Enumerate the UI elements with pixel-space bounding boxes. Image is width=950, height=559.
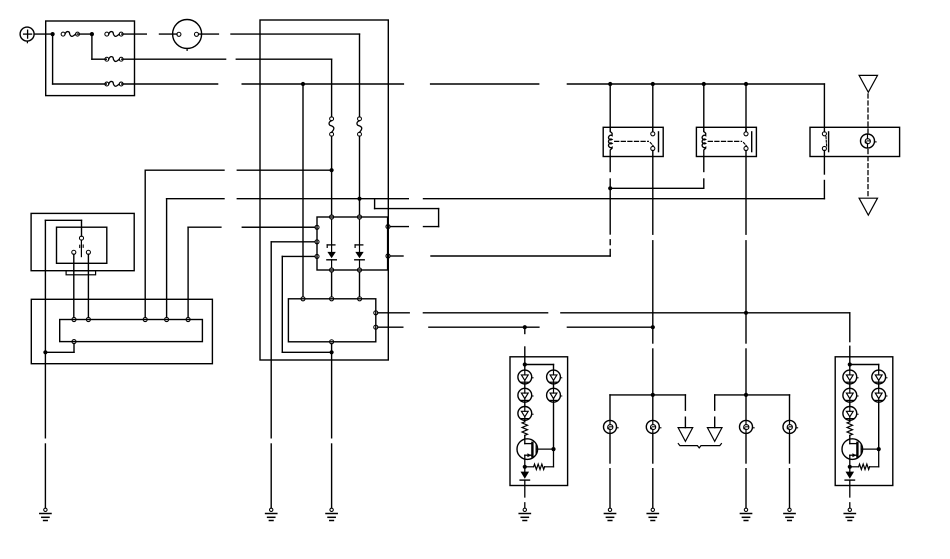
wire bbox=[78, 33, 92, 35]
pin e bbox=[186, 317, 190, 321]
pin 2 bbox=[330, 297, 334, 301]
wire bbox=[849, 384, 851, 388]
wire bbox=[359, 199, 361, 215]
ground G8 bbox=[523, 508, 526, 511]
node bus junction to combination module bbox=[301, 82, 305, 86]
bus bar (inner) bbox=[60, 320, 203, 342]
wire bbox=[331, 170, 333, 215]
switch right contact bbox=[86, 250, 90, 254]
wire diode pack pin4 to ground leg bbox=[271, 241, 315, 243]
switch lever bbox=[80, 240, 82, 257]
wire relay coils common bbox=[609, 157, 611, 172]
wire relay R2 contact to lamps bbox=[745, 157, 747, 235]
LED D3 bbox=[518, 407, 532, 421]
wire to ground bbox=[849, 480, 851, 497]
wire module internal supply bbox=[849, 357, 851, 370]
pin 6 bbox=[330, 340, 334, 344]
wire switch common to ground net bbox=[81, 220, 83, 236]
fuse box (under-hood fuse/relay box) bbox=[46, 21, 135, 96]
wire relay R1 contact to lamps bbox=[652, 157, 654, 235]
ground G2 bbox=[270, 508, 273, 511]
pin 3 bbox=[315, 225, 319, 229]
node accessory net junction bbox=[330, 168, 334, 172]
pin 6 bbox=[386, 225, 390, 229]
ground G3 bbox=[330, 508, 333, 511]
node gate junction bbox=[877, 447, 881, 451]
LED taillight module left bbox=[510, 357, 568, 486]
dashed link lower bbox=[867, 150, 869, 197]
LED D2 bbox=[518, 388, 532, 402]
turn signal lamp L2 bbox=[646, 420, 659, 433]
column connector block (outer) bbox=[31, 299, 212, 363]
LED D3 bbox=[843, 407, 857, 421]
switch common terminal bbox=[79, 236, 83, 240]
wire gate bbox=[861, 448, 879, 450]
node coil common junction bbox=[608, 186, 612, 190]
wire junction A down to fuse F4 bbox=[52, 34, 54, 84]
gauge control module U1 (outline) bbox=[260, 20, 388, 360]
wire bus drop to connector pin bbox=[302, 84, 304, 297]
wire switch left contact down bbox=[73, 254, 75, 317]
wire right turn output bbox=[378, 312, 409, 314]
ground G5 bbox=[651, 508, 654, 511]
node left turn junction bbox=[651, 325, 655, 329]
wire ignition line to switch pod bbox=[167, 198, 224, 200]
turn signal switch (inner) bbox=[57, 227, 107, 263]
fuse F3 bbox=[105, 57, 109, 61]
wire connector ground leg bbox=[331, 344, 333, 438]
LED D2 bbox=[843, 388, 857, 402]
wire illumination to diode pack bbox=[242, 226, 315, 228]
node module supply junction bbox=[523, 362, 527, 366]
pin 1 bbox=[301, 297, 305, 301]
LED D5 bbox=[547, 388, 561, 402]
ignition switch bbox=[173, 20, 202, 49]
node left module junction bbox=[523, 325, 527, 329]
wire diode outputs to connector bbox=[331, 272, 333, 297]
wire bus bar to ground bbox=[73, 344, 75, 353]
wire jog net (pin6 bridge) bbox=[390, 226, 408, 228]
wire accessory feed drop bbox=[331, 59, 333, 117]
wire left turn lamp manifold bbox=[610, 394, 685, 396]
resistor series bbox=[524, 420, 526, 422]
transistor Q1 (MOSFET) bbox=[842, 439, 863, 460]
transistor Q1 (MOSFET) bbox=[517, 439, 538, 460]
R3 contact bbox=[822, 132, 826, 136]
node ground junction bbox=[43, 350, 47, 354]
wire bbox=[359, 136, 361, 199]
wire relay R1 feeds bbox=[609, 84, 611, 132]
switch left contact bbox=[72, 250, 76, 254]
diode reverse protection bbox=[849, 467, 851, 472]
turn signal switch assembly (outer) bbox=[31, 213, 134, 270]
node left manifold junction bbox=[651, 393, 655, 397]
pin 4 bbox=[374, 311, 378, 315]
wire to ground bbox=[524, 480, 526, 497]
wire to trailer connector left bbox=[684, 395, 686, 410]
node source junction bbox=[848, 465, 852, 469]
node fuse feed junction B bbox=[90, 32, 94, 36]
hazard warning unit R3 bbox=[810, 127, 900, 156]
wire diode pack pin5 to ground net bbox=[282, 255, 315, 257]
wire bbox=[331, 136, 333, 170]
node bus junction relay 2 coil bbox=[702, 82, 706, 86]
diode reverse protection bbox=[524, 467, 526, 472]
ground G4 bbox=[608, 508, 611, 511]
pin a bbox=[72, 317, 76, 321]
pin f bbox=[72, 340, 76, 344]
LED D1 bbox=[843, 370, 857, 384]
pin d bbox=[165, 317, 169, 321]
pin 7 bbox=[386, 254, 390, 258]
node gate junction bbox=[551, 447, 555, 451]
node ground net junction bbox=[330, 350, 334, 354]
wire fuse F2 to ignition switch bbox=[122, 33, 147, 35]
connector arrow trailer right bbox=[707, 428, 722, 442]
relay R2 (right turn flasher) bbox=[696, 127, 756, 156]
fuse F2 bbox=[105, 32, 109, 36]
pin 3 bbox=[358, 297, 362, 301]
node source junction bbox=[523, 465, 527, 469]
turn signal lamp L1 bbox=[604, 420, 617, 433]
wire ignition switch output bbox=[199, 33, 219, 35]
pin 5 bbox=[315, 254, 319, 258]
node fuse feed junction A bbox=[51, 32, 55, 36]
ground G7 bbox=[788, 508, 791, 511]
diode pack (turn signal indicator diodes) bbox=[317, 217, 388, 270]
wire LED column to gate node bbox=[878, 402, 880, 449]
wire bbox=[524, 384, 526, 388]
node ignition net junction bbox=[357, 197, 361, 201]
wire left module drop bbox=[524, 327, 526, 333]
connector bar bbox=[66, 271, 96, 275]
diode D1 bbox=[331, 219, 333, 244]
wire switch right contact down bbox=[87, 254, 89, 317]
pin 2 bbox=[357, 215, 361, 219]
LED D4 bbox=[547, 370, 561, 384]
pin c bbox=[143, 317, 147, 321]
fuse F1 bbox=[61, 32, 65, 36]
fuse F5 (internal) bbox=[358, 117, 362, 121]
wire module internal supply bbox=[524, 357, 526, 370]
wire battery to fuse box bbox=[34, 33, 53, 35]
node bus junction relay 1 coil bbox=[608, 82, 612, 86]
LED D4 bbox=[872, 370, 886, 384]
resistor gate-source bbox=[878, 449, 880, 467]
brace trailer connector group bbox=[678, 444, 721, 448]
turn signal lamp L3 bbox=[740, 420, 753, 433]
wire LED column to gate node bbox=[553, 402, 555, 449]
fuse F6 (internal) bbox=[330, 117, 334, 121]
pin b bbox=[86, 317, 90, 321]
pin 4 bbox=[315, 240, 319, 244]
connector arrow up bbox=[859, 75, 877, 92]
wire fuse F3 output bbox=[122, 58, 226, 60]
pin 9 bbox=[357, 268, 361, 272]
relay R1 (left turn flasher) bbox=[603, 127, 663, 156]
resistor gate-source bbox=[553, 449, 555, 467]
wire right turn lamp manifold bbox=[715, 394, 790, 396]
turn signal lamp L4 bbox=[783, 420, 796, 433]
node right manifold junction bbox=[744, 393, 748, 397]
wire bbox=[849, 402, 851, 406]
LED D5 bbox=[872, 388, 886, 402]
wire R3 contact output bbox=[823, 151, 825, 157]
wire main battery bus bbox=[122, 83, 218, 85]
node right turn junction bbox=[744, 311, 748, 315]
wire left turn output bbox=[378, 326, 403, 328]
node bus junction relay 2 contact bbox=[744, 82, 748, 86]
ground G9 bbox=[848, 508, 851, 511]
connector arrow trailer left bbox=[678, 428, 693, 442]
wire ignition net to hazard relay bbox=[360, 198, 409, 200]
indicator bulb L5 bbox=[861, 134, 875, 148]
resistor series bbox=[849, 420, 851, 422]
wire gate bbox=[536, 448, 553, 450]
wire bbox=[524, 402, 526, 406]
wire relay R2 feeds bbox=[703, 84, 705, 132]
pin 1 bbox=[330, 215, 334, 219]
connector arrow down bbox=[859, 198, 877, 215]
wire junction B down to fuse F3 bbox=[91, 34, 93, 59]
wire ignition feed drop bbox=[359, 34, 361, 117]
battery positive terminal bbox=[20, 27, 34, 41]
diode D2 bbox=[359, 219, 361, 244]
ground G1 bbox=[44, 508, 47, 511]
wire bus to relay 3 bbox=[823, 84, 825, 132]
LED D1 bbox=[518, 370, 532, 384]
wire turn signal feed to flasher relays bbox=[390, 255, 403, 257]
wire accessory line to dimmer switch bbox=[145, 169, 224, 171]
wire bbox=[878, 384, 880, 388]
combination connector block bbox=[288, 299, 375, 342]
wire right module drop bbox=[849, 313, 851, 342]
LED taillight module right bbox=[835, 357, 893, 486]
dashed link upper bbox=[867, 94, 869, 133]
wire bbox=[553, 384, 555, 388]
fuse F4 bbox=[105, 82, 109, 86]
ground G6 bbox=[744, 508, 747, 511]
node module supply junction bbox=[848, 362, 852, 366]
wire to trailer connector right bbox=[714, 395, 716, 410]
wire illumination line bbox=[188, 226, 221, 228]
node bus junction relay 1 contact bbox=[651, 82, 655, 86]
pin 8 bbox=[330, 268, 334, 272]
pin 5 bbox=[374, 325, 378, 329]
wire to ground G1 bbox=[44, 352, 46, 438]
